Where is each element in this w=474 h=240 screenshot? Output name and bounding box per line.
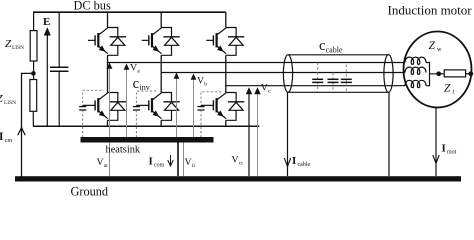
gate lead top switch leg3 <box>206 39 213 41</box>
gate lead bottom switch leg3 to c_inv cap <box>201 104 213 106</box>
svg-text:mot: mot <box>447 149 457 155</box>
dashed lead cable cap 2 <box>332 73 334 93</box>
resistor Z_LISN lower <box>30 80 37 112</box>
dashed lead c_inv 1 to heatsink <box>82 110 84 137</box>
svg-text:ct: ct <box>239 160 243 166</box>
gate lead bottom switch leg1 to c_inv cap <box>83 104 95 106</box>
gate lead top switch leg2 <box>142 39 149 41</box>
svg-text:DC bus: DC bus <box>74 0 111 13</box>
wire: leg 1 upper <box>107 12 109 27</box>
wire: cable shield right ground <box>388 92 390 176</box>
resistor Z_LISN upper <box>30 31 37 61</box>
voltage arrow a1 continuation below heatsink <box>109 143 111 177</box>
voltage arrow V_b <box>193 77 195 137</box>
wire: DC+ bus rail <box>33 11 226 13</box>
svg-text:LISN: LISN <box>12 45 24 51</box>
measurement line V_ti (gray) <box>183 143 185 177</box>
winding coil c <box>405 80 426 87</box>
voltage arrow V_a <box>126 67 128 137</box>
node: frame connection dot <box>468 71 473 76</box>
capacitor DC-link: top lead <box>58 12 60 67</box>
capacitor c_inv 1 <box>82 104 84 107</box>
dashed lead c_inv 3 to heatsink <box>200 110 202 137</box>
IGBT top switch leg2 with diode <box>149 28 180 56</box>
IGBT bottom switch leg1 with diode <box>95 93 126 121</box>
wire: rail to upper Z_LISN <box>33 12 35 30</box>
wire: leg 3 upper <box>225 12 227 27</box>
svg-text:cable: cable <box>298 162 311 168</box>
gate lead top switch leg1 <box>88 39 95 41</box>
svg-text:c: c <box>133 76 139 92</box>
voltage arrow E (solid head up) <box>46 34 48 126</box>
current arrow I_cm (open head, pointing up) <box>18 128 25 136</box>
svg-text:V: V <box>197 76 204 87</box>
svg-text:cable: cable <box>326 46 343 55</box>
svg-text:Induction motor: Induction motor <box>388 3 473 18</box>
wire: dot to Z_t <box>439 73 445 75</box>
wire: leg 1 lower <box>107 120 109 126</box>
svg-text:I: I <box>442 142 446 154</box>
svg-text:Z: Z <box>444 82 451 94</box>
dashed lead cable cap 1 <box>317 63 319 93</box>
voltage arrow V_c <box>257 92 259 176</box>
svg-text:V: V <box>261 83 268 94</box>
svg-text:heatsink: heatsink <box>106 145 141 156</box>
IGBT top switch leg3 with diode <box>213 28 244 56</box>
wire: leg 2 middle <box>160 55 162 92</box>
wire: leg 2 upper <box>160 12 162 27</box>
wire: lower Z_LISN to DC- rail <box>32 111 34 126</box>
svg-text:V: V <box>97 157 104 168</box>
voltage arrow a1 (to heatsink) <box>109 66 111 137</box>
svg-text:t: t <box>453 89 455 96</box>
winding coil a <box>405 57 426 64</box>
capacitor c_inv 2 <box>135 104 137 107</box>
cable shield right ellipse <box>384 55 393 93</box>
svg-text:Z: Z <box>5 38 12 50</box>
current arrow I_mot (open head down) <box>433 155 439 164</box>
svg-text:LISN: LISN <box>4 100 16 106</box>
svg-text:b: b <box>204 82 207 88</box>
dashed module outline leg2 <box>136 91 157 103</box>
wire: cable shield left ground <box>287 92 289 176</box>
svg-text:V: V <box>232 154 239 165</box>
wire: Z_t to frame <box>466 73 471 75</box>
svg-text:Ground: Ground <box>71 185 109 197</box>
ground bar <box>15 176 461 181</box>
svg-text:I: I <box>292 155 296 167</box>
IGBT top switch leg1 with diode <box>95 28 126 56</box>
svg-text:c: c <box>319 38 325 54</box>
wire: upper Z_LISN to node <box>33 61 35 80</box>
capacitor c_cable 3 <box>341 78 352 80</box>
wire: midpoint to ground wire <box>22 73 34 176</box>
svg-text:inv: inv <box>140 83 150 92</box>
svg-text:I: I <box>149 156 153 168</box>
svg-text:com: com <box>154 163 165 169</box>
resistor Z_t box <box>444 70 465 77</box>
cable shield cylinder top <box>288 54 389 56</box>
dashed module outline leg3 <box>201 92 222 103</box>
IGBT bottom switch leg2 with diode <box>149 93 180 121</box>
winding coil b <box>405 67 426 74</box>
wire: winding common bar <box>426 63 439 86</box>
motor frame circle <box>404 32 472 108</box>
dashed module outline leg1 <box>83 90 104 103</box>
wire: heatsink ground strap <box>177 143 179 177</box>
capacitor c_cable 1 <box>312 78 323 80</box>
wire: leg 2 lower <box>160 120 162 126</box>
dashed lead c_inv 2 to heatsink <box>135 110 137 137</box>
wire: phase line c <box>226 85 405 87</box>
capacitor c_cable 2 <box>328 78 339 80</box>
svg-text:cm: cm <box>5 137 13 144</box>
IGBT bottom switch leg3 with diode <box>213 93 244 121</box>
svg-text:E: E <box>43 16 50 28</box>
wire: leg 1 middle <box>107 55 109 92</box>
wire: leg 3 middle <box>225 55 227 92</box>
cable shield cylinder bottom <box>288 91 389 93</box>
wire: DC- rail <box>33 125 259 127</box>
wire: motor frame ground <box>435 107 437 176</box>
svg-text:V: V <box>130 63 137 74</box>
wire: leg 3 lower <box>225 120 227 126</box>
cable shield left ellipse <box>283 55 292 93</box>
capacitor DC-link: bottom lead <box>58 71 60 126</box>
current arrow I_cable (open head down) <box>284 158 290 167</box>
voltage arrow b1 <box>176 76 178 137</box>
svg-text:I: I <box>0 131 4 143</box>
gate lead bottom switch leg2 to c_inv cap <box>136 104 148 106</box>
current arrow I_com (open head down) <box>168 155 174 166</box>
node: winding star point dot <box>436 71 441 76</box>
heatsink bar <box>81 137 214 143</box>
dashed lead cable cap 3 <box>345 65 347 93</box>
svg-text:w: w <box>437 46 442 53</box>
svg-text:V: V <box>185 157 192 168</box>
capacitor c_inv 3 <box>200 104 202 107</box>
wire: phase line b <box>161 72 405 74</box>
svg-text:at: at <box>104 163 108 169</box>
svg-text:Z: Z <box>429 40 436 52</box>
node: LISN midpoint junction dot <box>31 71 36 76</box>
wire: phase line a <box>108 62 406 64</box>
svg-text:ti: ti <box>192 163 196 169</box>
voltage arrow c1 (black shaft to ground) <box>248 92 250 176</box>
capacitor DC-link plates <box>50 66 68 68</box>
